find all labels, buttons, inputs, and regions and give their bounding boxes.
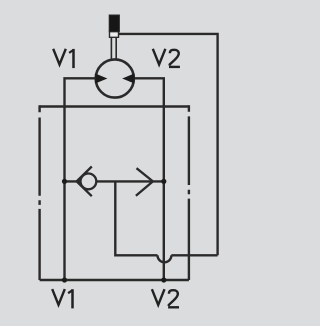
shaft seal box xyxy=(110,32,119,38)
wire: drain horizontal H1 right part xyxy=(171,254,217,256)
enclosure left edge (chain line) xyxy=(38,105,40,280)
motor triangle left xyxy=(95,74,107,84)
wire: check valve line between V1 and V2 wires xyxy=(65,180,164,182)
crossover hop over V2 wire xyxy=(158,255,172,262)
pump/motor U1 circle xyxy=(96,59,134,97)
motor triangle right xyxy=(122,74,134,84)
wire: V2 line from pump right port down to V2 port xyxy=(134,78,164,280)
junction dot left-check xyxy=(62,179,67,184)
label V2 top xyxy=(153,49,180,67)
label V2 bottom xyxy=(152,289,179,307)
junction dot V2 port xyxy=(161,277,166,282)
check valve V-seat xyxy=(77,167,92,197)
wire: drain horizontal H1 left part and riser to check line xyxy=(115,181,157,255)
enclosure top edge xyxy=(40,105,189,107)
wire: drain line from shaft seal to right side xyxy=(119,34,218,255)
wire: V1 line from pump left port down to V1 port xyxy=(65,78,96,280)
enclosure bottom edge xyxy=(40,279,189,281)
enclosure right edge (chain line) xyxy=(188,105,190,280)
check valve ball xyxy=(81,174,97,190)
label V1 top xyxy=(53,49,73,68)
shaft end (black) xyxy=(109,15,119,32)
flow arrow on check line xyxy=(136,168,153,196)
junction dot V1 port xyxy=(62,277,67,282)
shaft double line xyxy=(111,37,116,60)
junction dot right-check xyxy=(161,179,166,184)
label V1 bottom xyxy=(52,289,72,308)
